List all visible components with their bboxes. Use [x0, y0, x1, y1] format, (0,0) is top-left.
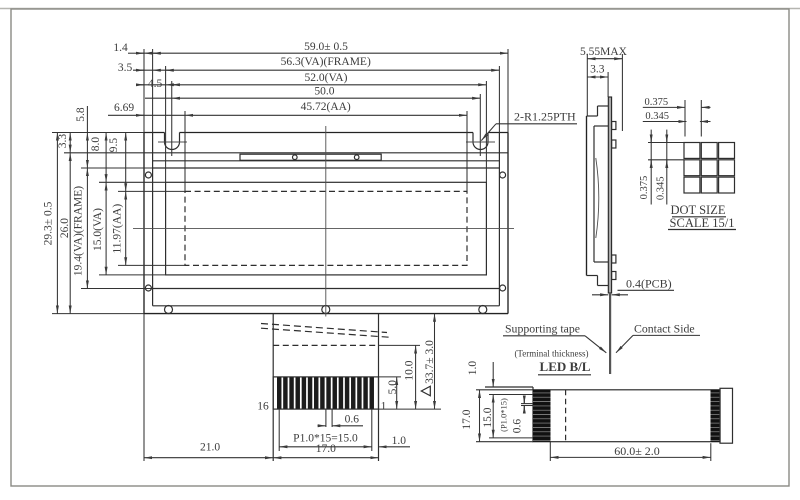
svg-text:3.3: 3.3 — [57, 134, 69, 149]
svg-text:1.0: 1.0 — [392, 435, 407, 447]
connector contact block — [273, 377, 378, 409]
dimension 17.0 LED — [461, 390, 480, 442]
dimension 29.3 +/-0.5 — [43, 133, 58, 314]
svg-text:16: 16 — [257, 401, 269, 413]
dimension 17.0 — [273, 443, 378, 458]
side view frame profile — [587, 106, 609, 286]
extension lines left dims — [52, 133, 185, 314]
dimension 8.0 — [90, 133, 106, 183]
dimension 21.0 — [144, 442, 273, 458]
svg-text:59.0± 0.5: 59.0± 0.5 — [304, 41, 348, 53]
label Supporting tape with leader — [503, 322, 606, 353]
dimension 1.0 LED tab — [467, 361, 493, 387]
dimension 0.375 horizontal — [643, 97, 711, 108]
side view elastomer bow — [596, 158, 599, 238]
svg-text:SCALE 15/1: SCALE 15/1 — [670, 216, 735, 230]
LED backlight right contact block — [711, 390, 721, 442]
svg-text:15.0(VA): 15.0(VA) — [92, 208, 104, 251]
bottom hole center — [322, 306, 330, 314]
svg-text:56.3(VA)(FRAME): 56.3(VA)(FRAME) — [281, 56, 371, 68]
svg-text:3.5: 3.5 — [118, 62, 133, 74]
mounting notch left 2-R1.25PTH — [158, 133, 187, 150]
label DOT SIZE — [671, 203, 726, 217]
corner hole top-right — [500, 172, 506, 178]
side view extension lines — [587, 54, 622, 131]
svg-text:45.72(AA): 45.72(AA) — [301, 101, 351, 113]
dimension 33.7 +/-3.0 tail length — [421, 314, 436, 410]
LED backlight left contact block — [533, 390, 551, 442]
svg-text:0.345: 0.345 — [655, 176, 666, 200]
side view PCB edge-on — [608, 97, 611, 293]
svg-text:15.0: 15.0 — [482, 407, 494, 427]
horizontal centerline — [133, 227, 514, 229]
dimension 4.5 — [136, 78, 180, 90]
dimension 60.0 +/-2.0 — [550, 444, 711, 458]
mounting notch right 2-R1.25PTH — [466, 133, 495, 150]
svg-text:6.69: 6.69 — [114, 102, 134, 114]
LED backlight end cap — [720, 388, 733, 443]
FPC fold dashed slant lines — [261, 324, 389, 338]
svg-text:52.0(VA): 52.0(VA) — [305, 72, 348, 84]
svg-text:4.5: 4.5 — [148, 78, 163, 90]
dimension 1.4 — [113, 42, 161, 54]
interface bracket — [240, 154, 381, 160]
bracket hole right — [354, 155, 359, 160]
svg-text:0.345: 0.345 — [645, 111, 669, 122]
dimension 3.3 side — [587, 64, 608, 77]
svg-text:2-R1.25PTH: 2-R1.25PTH — [514, 110, 576, 124]
label LED B/L — [538, 359, 591, 375]
svg-text:1.0: 1.0 — [467, 361, 479, 376]
dimension 0.6 pin width — [318, 413, 364, 426]
label 2-R1.25PTH with leader — [481, 110, 577, 141]
dot matrix 3x3 grid — [684, 143, 735, 194]
svg-text:0.375: 0.375 — [644, 97, 668, 108]
dimension 5.8 — [75, 106, 88, 168]
dot pitch extension lines top — [685, 100, 701, 137]
svg-text:0.6: 0.6 — [511, 419, 523, 434]
dot pitch extension lines left — [648, 143, 684, 160]
dimension 6.69 — [114, 102, 144, 115]
dimension 26.0 — [59, 153, 71, 314]
label SCALE 15/1 — [668, 216, 736, 230]
dimension 50.0 — [145, 86, 480, 99]
dimension 0.345 horizontal — [643, 111, 711, 122]
svg-text:5.8: 5.8 — [75, 107, 87, 122]
FPC tail sides — [273, 314, 378, 461]
dimension 5.55MAX — [580, 46, 628, 59]
dimension 15.0 LED — [482, 395, 494, 438]
svg-text:Contact Side: Contact Side — [634, 322, 695, 336]
corner hole top-left — [145, 172, 151, 178]
PCB top edge — [144, 152, 508, 154]
svg-text:1.4: 1.4 — [113, 42, 128, 54]
side view glass stack — [594, 126, 608, 262]
LED backlight FPC body — [485, 387, 720, 442]
dimension 11.97(AA) — [112, 191, 126, 265]
svg-text:60.0± 2.0: 60.0± 2.0 — [614, 444, 660, 458]
dimension 0.6 LED — [511, 397, 524, 434]
svg-text:50.0: 50.0 — [314, 86, 334, 98]
svg-text:5.0: 5.0 — [387, 380, 399, 395]
dimension 45.72(AA) — [108, 101, 467, 115]
svg-text:8.0: 8.0 — [90, 137, 102, 152]
dimension 9.5 — [108, 133, 126, 192]
svg-text:21.0: 21.0 — [200, 442, 220, 454]
svg-text:3.3: 3.3 — [590, 64, 605, 76]
corner hole bottom-left — [145, 285, 151, 291]
corner hole bottom-right — [500, 285, 506, 291]
svg-text:29.3± 0.5: 29.3± 0.5 — [43, 201, 55, 245]
svg-text:9.5: 9.5 — [108, 138, 120, 153]
dimension 3.5 — [118, 62, 174, 74]
svg-text:Supporting tape: Supporting tape — [505, 322, 580, 336]
dimension 15.0(VA) — [92, 182, 106, 275]
PCB outline — [144, 133, 508, 314]
svg-text:11.97(AA): 11.97(AA) — [112, 204, 124, 254]
AA dashed outline — [185, 191, 467, 265]
dimension 5.0 — [387, 377, 399, 409]
label Contact Side with leader — [616, 322, 700, 353]
dimension 0.345 vertical — [655, 130, 667, 205]
bottom hole right — [479, 306, 487, 314]
extension lines bottom dims — [144, 314, 441, 461]
svg-text:(Terminal thickness): (Terminal thickness) — [514, 349, 588, 359]
svg-text:26.0: 26.0 — [59, 218, 71, 238]
dimension 3.3 — [57, 133, 70, 153]
svg-text:5.55MAX: 5.55MAX — [580, 46, 628, 58]
dimension 52.0(VA) — [138, 72, 487, 85]
svg-text:0.375: 0.375 — [639, 176, 650, 200]
dimension P1.0*15=15.0 — [279, 432, 372, 447]
dimension 0.375 vertical — [639, 130, 651, 205]
dimension 10.0 — [403, 345, 415, 409]
svg-text:0.4(PCB): 0.4(PCB) — [626, 277, 672, 291]
LED backlight dashed line — [565, 390, 567, 442]
extension lines top dims — [144, 49, 508, 191]
LED extension lines — [476, 390, 711, 461]
svg-text:(P1.0*15): (P1.0*15) — [499, 398, 509, 432]
side view FPC tail — [609, 293, 611, 374]
dimension 0.4(PCB) — [592, 277, 674, 295]
svg-text:19.4(VA)(FRAME): 19.4(VA)(FRAME) — [73, 186, 85, 276]
svg-text:10.0: 10.0 — [403, 360, 415, 380]
side view frame tabs on back — [612, 122, 616, 280]
dimension 56.3(VA)(FRAME) — [133, 56, 499, 70]
svg-text:1: 1 — [381, 401, 387, 413]
dimension 19.4(VA)(FRAME) — [73, 168, 88, 289]
bezel frame outline — [153, 133, 500, 306]
bracket hole left — [293, 155, 298, 160]
VA window — [166, 182, 487, 275]
svg-text:17.0: 17.0 — [316, 443, 336, 455]
dimension 1.0 pin margin — [379, 435, 411, 447]
vertical centerline — [325, 126, 327, 317]
bottom hole left — [165, 306, 173, 314]
FPC dashed fold line — [273, 344, 378, 346]
svg-text:0.6: 0.6 — [345, 413, 360, 425]
svg-text:LED B/L: LED B/L — [540, 359, 591, 374]
dimension 59.0 +/-0.5 — [128, 41, 508, 53]
svg-text:33.7± 3.0: 33.7± 3.0 — [424, 340, 436, 384]
svg-text:17.0: 17.0 — [461, 409, 473, 429]
